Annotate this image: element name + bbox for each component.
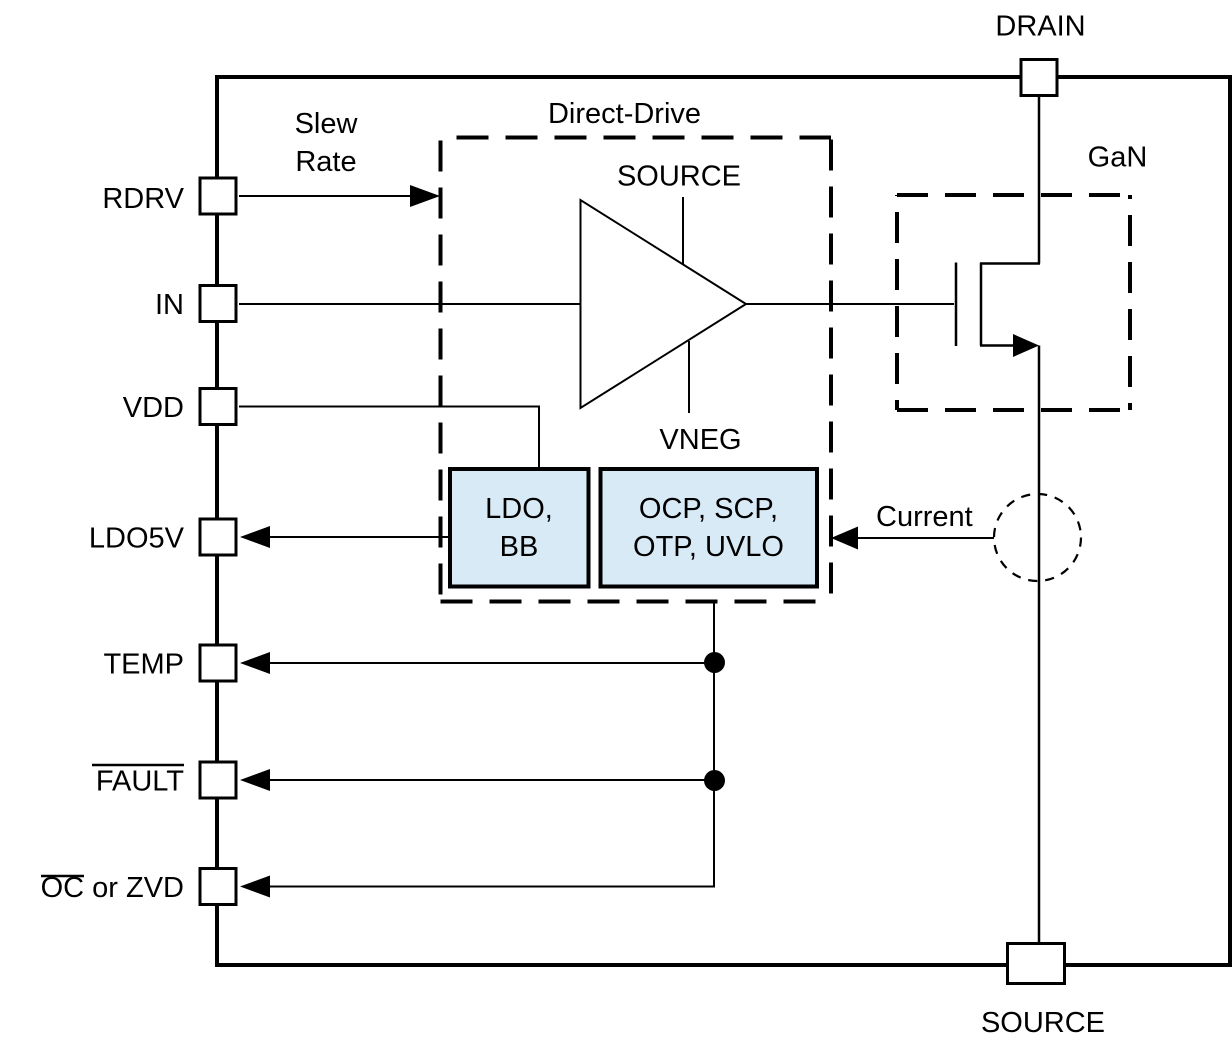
wire DRAIN net (pin to FET drain) <box>1038 96 1041 264</box>
arrowhead at OC/ZVD pin <box>240 876 270 898</box>
svg-text:Rate: Rate <box>295 146 356 178</box>
pin DRAIN <box>1021 60 1057 96</box>
wire RDRV slew-rate control <box>239 195 414 197</box>
GaN FET dashed boundary <box>897 195 1130 410</box>
svg-text:OTP, UVLO: OTP, UVLO <box>633 531 784 563</box>
svg-text:IN: IN <box>155 289 184 321</box>
svg-text:Slew: Slew <box>295 108 359 140</box>
svg-text:VDD: VDD <box>123 392 184 424</box>
wire IN to driver input <box>239 303 580 305</box>
transistor Q1 drain lead <box>980 262 1040 265</box>
label FAULT (active low, overline) <box>92 765 184 798</box>
svg-text:GaN: GaN <box>1088 142 1148 174</box>
transistor Q1 channel bar <box>980 263 983 346</box>
svg-text:BB: BB <box>500 531 539 563</box>
arrowhead current into OCP <box>831 527 858 550</box>
pin SOURCE bottom pad <box>1008 944 1065 984</box>
svg-text:SOURCE: SOURCE <box>617 161 741 193</box>
Direct-Drive dashed boundary <box>441 138 832 602</box>
wire VNEG supply rail tap <box>688 341 690 413</box>
block LDO, BB <box>450 469 589 587</box>
wire LDO block to LDO5V <box>266 536 448 538</box>
wire current sense to protection block <box>856 537 994 539</box>
svg-text:Current: Current <box>876 501 973 533</box>
svg-text:TEMP: TEMP <box>103 649 184 681</box>
label OC or ZVD (OC overline) <box>41 872 184 904</box>
pin RDRV <box>200 178 236 214</box>
driver amplifier U1 <box>581 200 747 408</box>
wire SOURCE supply rail tap <box>682 197 684 264</box>
block OCP, SCP, OTP, UVLO protection <box>601 469 818 587</box>
transistor Q1 gate bar <box>955 263 958 347</box>
current sense element (dashed circle) <box>994 494 1081 581</box>
junction dot TEMP <box>704 652 725 673</box>
pin LDO5V <box>200 519 236 555</box>
svg-text:FAULT: FAULT <box>96 766 184 798</box>
IC boundary box <box>217 77 1230 965</box>
wire status vertical from protection block <box>713 601 715 888</box>
svg-text:Direct-Drive: Direct-Drive <box>548 98 701 130</box>
arrowhead RDRV into Direct-Drive <box>410 185 440 207</box>
wire driver output to GaN gate <box>746 303 954 305</box>
arrowhead at FAULT pin <box>240 769 270 791</box>
arrowhead at TEMP pin <box>240 652 270 674</box>
arrowhead at LDO5V pin <box>240 526 270 548</box>
pin VDD <box>200 389 236 425</box>
transistor Q1 source arrowhead <box>1013 334 1039 357</box>
pin OC/ZVD <box>200 869 236 905</box>
wire VDD to LDO block <box>239 407 539 468</box>
svg-text:LDO5V: LDO5V <box>89 523 185 555</box>
transistor Q1 source lead <box>980 344 1016 347</box>
svg-text:VNEG: VNEG <box>659 424 741 456</box>
pin FAULT <box>200 762 236 798</box>
svg-text:RDRV: RDRV <box>102 183 184 215</box>
svg-text:OCP, SCP,: OCP, SCP, <box>639 493 778 525</box>
wire TEMP status <box>266 662 714 664</box>
junction dot FAULT <box>704 770 725 791</box>
wire OC/ZVD status <box>266 886 715 888</box>
pin IN <box>200 286 236 322</box>
label Slew Rate <box>295 108 359 178</box>
wire FAULT status <box>266 779 714 781</box>
svg-text:LDO,: LDO, <box>485 493 553 525</box>
svg-text:DRAIN: DRAIN <box>995 11 1085 43</box>
svg-text:SOURCE: SOURCE <box>981 1007 1105 1039</box>
pin TEMP <box>200 645 236 681</box>
wire SOURCE net trunk (FET source to bottom pad) <box>1038 346 1041 945</box>
